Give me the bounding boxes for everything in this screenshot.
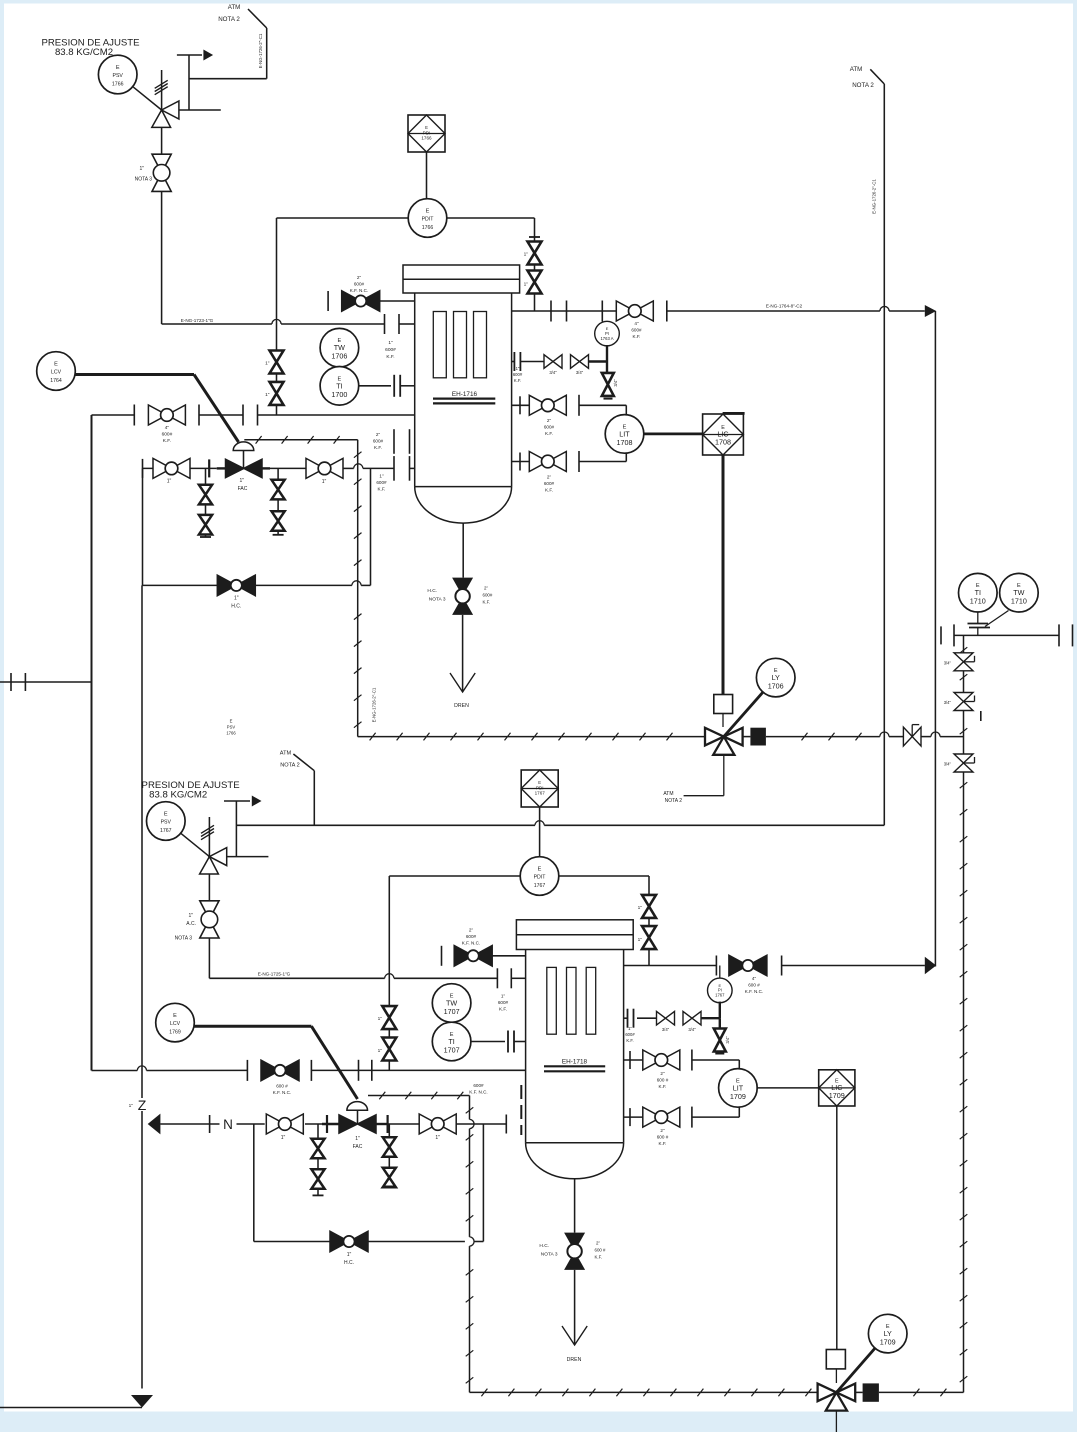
flange: [715, 956, 717, 976]
relief valve PSV-1766: [152, 101, 179, 127]
svg-text:DREN: DREN: [567, 1357, 582, 1363]
instrument LIT-1708: [605, 415, 644, 454]
flange: [510, 968, 512, 988]
wire HC bypass b: [255, 584, 352, 586]
wire psv stem: [161, 70, 163, 110]
jacket bottom c: [879, 1391, 964, 1393]
svg-text:E-NG-1764-8"-C2: E-NG-1764-8"-C2: [766, 304, 803, 309]
wire spool: [199, 414, 243, 416]
instrument LCV-1769: [156, 1003, 195, 1042]
wire N2 riser upper: [141, 585, 143, 1098]
svg-text:K.F.: K.F.: [386, 354, 394, 360]
wire vent tee: [177, 54, 202, 56]
svg-text:1": 1": [322, 479, 327, 485]
arrow to bottom: [131, 1395, 153, 1408]
svg-text:N: N: [223, 1117, 233, 1132]
bleed valve: [383, 1168, 396, 1188]
wire psv outlet: [179, 109, 221, 111]
svg-text:NOTA 2: NOTA 2: [665, 798, 683, 804]
wire drain b: [462, 615, 464, 692]
flange cap: [327, 291, 329, 311]
valve 2in 600KF NC: [454, 946, 492, 967]
wire 3way drain: [723, 755, 725, 796]
wire 3way drain 2: [835, 1411, 837, 1432]
svg-text:2": 2": [469, 928, 474, 933]
control valve FAC-2: [339, 1115, 376, 1133]
wire TI-1707 tap: [471, 1041, 505, 1043]
vessel EH-1716: [403, 265, 520, 523]
svg-text:1": 1": [240, 478, 245, 484]
svg-text:EH-1718: EH-1718: [562, 1059, 588, 1066]
signal stub top: [723, 412, 745, 415]
drain arrow 2: [562, 1326, 587, 1345]
svg-text:ATM: ATM: [228, 4, 241, 11]
instrument TW-1710: [1000, 573, 1039, 612]
flange: [246, 1060, 248, 1081]
svg-text:1": 1": [139, 166, 144, 172]
tap valve 1in: [382, 1006, 396, 1029]
svg-text:1": 1": [379, 474, 384, 479]
svg-text:600#: 600#: [162, 432, 173, 438]
instrument TI-1707: [432, 1022, 471, 1061]
jacket drain header b: [743, 736, 751, 738]
svg-text:600 #: 600 #: [595, 1248, 607, 1253]
svg-text:1": 1": [501, 994, 506, 999]
wire tap: [520, 361, 544, 363]
tap valve 1in: [528, 271, 542, 294]
svg-text:K.F.: K.F.: [163, 438, 171, 444]
tap valve 1in: [270, 351, 284, 374]
instrument PI-1767: [708, 978, 733, 1003]
flange: [550, 301, 552, 322]
flange: [629, 1051, 631, 1069]
svg-text:2": 2": [547, 475, 552, 480]
flange: [505, 1115, 507, 1134]
wire E-NG-1764 line: [667, 310, 880, 312]
svg-text:E: E: [54, 362, 58, 368]
stub cap: [273, 534, 284, 536]
instrument PDI-1767: [521, 770, 558, 807]
svg-text:600#: 600#: [373, 439, 384, 444]
wire lower tap line a: [92, 1070, 138, 1072]
jacket drain header f: [940, 736, 963, 738]
flange: [242, 405, 244, 426]
svg-text:3/4": 3/4": [944, 700, 952, 705]
flange: [666, 301, 668, 322]
svg-text:E: E: [230, 719, 233, 724]
wire actuator stem: [243, 451, 245, 469]
gate valve 4in 600 KF: [148, 405, 185, 425]
svg-text:4": 4": [165, 425, 170, 431]
svg-text:PSV: PSV: [161, 820, 172, 826]
wire mid ATM stub: [313, 771, 315, 826]
wire to LIT 2: [692, 1059, 739, 1061]
wire ATM header a: [236, 824, 535, 826]
wire nozzle: [511, 977, 525, 979]
svg-text:E: E: [116, 65, 120, 71]
svg-text:A.C.: A.C.: [186, 921, 196, 927]
instrument PI-1763A: [595, 321, 620, 346]
svg-text:1": 1": [524, 282, 529, 288]
three-way valve 2: [818, 1384, 856, 1411]
instrument LY-1709: [868, 1314, 907, 1353]
wire vent riser 2: [235, 801, 237, 857]
svg-text:1": 1": [129, 1103, 134, 1109]
fail position square: [750, 728, 766, 746]
hop over PDIT leg: [385, 974, 394, 979]
valve 1in HC: [217, 575, 255, 596]
svg-text:2": 2": [660, 1071, 665, 1076]
wire PDIT2 left leg: [388, 876, 390, 1070]
needle valve 3/4 d: [657, 1011, 675, 1025]
jacket left vertical 2c: [469, 1246, 471, 1392]
svg-text:1700: 1700: [331, 390, 347, 399]
svg-text:1": 1": [524, 252, 529, 258]
wire vent riser: [188, 55, 190, 110]
svg-text:600#: 600#: [544, 481, 555, 486]
wire interconnect drop: [934, 311, 936, 967]
svg-text:FAC: FAC: [238, 486, 248, 492]
wire bleed stub 3: [317, 1124, 319, 1195]
stub cap: [384, 1185, 395, 1187]
wire bypass riser right: [370, 468, 372, 585]
wire HC bypass 2c: [474, 1241, 483, 1243]
wire thick: [589, 360, 608, 362]
wire LIT top leg: [625, 405, 627, 415]
svg-text:K.F.: K.F.: [545, 431, 553, 436]
flange: [629, 1108, 631, 1126]
svg-text:1710: 1710: [1011, 597, 1027, 606]
svg-text:1": 1": [516, 366, 520, 371]
wire actuator to valve: [722, 714, 724, 728]
signal LCV2 thick: [194, 1025, 311, 1028]
wire TI stem b: [977, 628, 979, 636]
wire PDIT right leg: [534, 218, 536, 311]
svg-text:3/4": 3/4": [944, 660, 952, 665]
wire PDIT right tap: [448, 217, 535, 219]
blind flange pair: [393, 456, 395, 481]
wire actuator to valve 2: [835, 1369, 837, 1383]
svg-text:1": 1": [638, 905, 643, 911]
wire PDIT2 right tap: [559, 875, 649, 877]
svg-text:NOTA 2: NOTA 2: [280, 763, 299, 769]
svg-text:3/4": 3/4": [944, 762, 952, 767]
flow arrow into riser: [148, 1114, 161, 1135]
wire tap stub 2: [624, 1017, 628, 1019]
jacket line left vertical: [357, 440, 359, 737]
flange: [519, 396, 521, 414]
signal PSV-1766 to valve: [133, 87, 161, 110]
flange: [578, 395, 580, 416]
needle valve 3/4 vert: [602, 373, 614, 396]
svg-text:K.F.: K.F.: [499, 1007, 507, 1012]
needle valve 3/4: [571, 355, 589, 369]
jacket right vertical: [963, 635, 965, 1392]
svg-text:600#: 600#: [354, 282, 365, 287]
wire mid ATM slant: [293, 754, 314, 771]
svg-text:E-NG-1726-2"-C1: E-NG-1726-2"-C1: [258, 33, 263, 68]
svg-text:K.F. N.C.: K.F. N.C.: [745, 989, 763, 994]
wire TI-1700 tap: [359, 385, 391, 387]
wire PDIT left tap: [277, 217, 408, 219]
svg-text:600#: 600#: [473, 1083, 484, 1088]
svg-text:E-NG-1725-1"G: E-NG-1725-1"G: [258, 972, 291, 977]
jacket drain header c: [766, 736, 880, 738]
svg-text:K.F.: K.F.: [545, 488, 553, 493]
control valve FAC-1: [226, 459, 263, 477]
wire actuator stem 2: [357, 1110, 359, 1124]
svg-text:1710: 1710: [970, 597, 986, 606]
wire E-NG-1723 line: [162, 323, 272, 325]
wire drain 2b: [574, 1270, 576, 1345]
wire ATM slant: [248, 9, 267, 28]
wire TI nozzle: [400, 385, 415, 387]
svg-text:NOTA 3: NOTA 3: [175, 936, 193, 942]
three-way valve: [705, 728, 743, 755]
wire level nozzle 2 top: [624, 1059, 644, 1061]
psv2 spring: [201, 825, 214, 839]
wire N2 riser lower: [141, 1111, 143, 1389]
gate valve 2in d: [643, 1107, 680, 1127]
svg-text:K.F. N.C.: K.F. N.C.: [273, 1090, 291, 1095]
blind flange pair: [393, 429, 395, 454]
wire drain: [462, 523, 464, 578]
svg-text:1764: 1764: [50, 378, 62, 384]
svg-text:1706: 1706: [331, 352, 347, 361]
wire outlet line: [512, 310, 617, 312]
svg-text:1707: 1707: [444, 1046, 460, 1055]
instrument PSV-1767: [147, 802, 186, 841]
svg-text:1": 1": [281, 1135, 286, 1141]
svg-text:E: E: [538, 780, 541, 785]
svg-text:E-NG-1726-2"-C1: E-NG-1726-2"-C1: [872, 179, 877, 214]
wire level nozzle bottom: [512, 461, 530, 463]
flange: [358, 1060, 360, 1081]
wire PDI stem: [539, 807, 541, 857]
svg-text:600 #: 600 #: [276, 1084, 288, 1089]
instrument TI-1700: [320, 367, 359, 406]
wire level nozzle 2 bottom: [624, 1116, 644, 1118]
valve 1in HC 2: [330, 1231, 368, 1252]
signal PI thick stem: [606, 345, 608, 362]
gate valve 2in: [529, 395, 566, 415]
flange: [691, 1050, 693, 1071]
valve 3/4 a: [954, 653, 975, 671]
svg-text:K.F.: K.F.: [374, 445, 382, 450]
signal LY diagonal: [724, 692, 763, 737]
relief valve PSV-1767: [200, 848, 227, 874]
flange: [953, 624, 955, 646]
valve 3/4 b: [954, 693, 975, 711]
wire 1in FAC line a: [143, 467, 217, 469]
hop over interconnect: [931, 732, 940, 737]
jacket drain header a: [358, 736, 705, 738]
tag underline b: [433, 402, 495, 404]
wire HC bypass 2: [254, 1241, 331, 1243]
flange: [1058, 624, 1060, 646]
wire E-NG-1723 line b: [281, 323, 384, 325]
wire 4in steam line: [92, 414, 135, 416]
svg-text:K.F.: K.F.: [633, 334, 641, 339]
flange pair: [394, 375, 400, 397]
wire psv2 inlet: [208, 874, 210, 901]
valve 2in 600 KF NC: [342, 291, 380, 312]
svg-text:E: E: [538, 867, 542, 873]
gate valve 1in b: [306, 458, 343, 478]
svg-text:1": 1": [628, 1026, 632, 1031]
vent arrow: [203, 50, 213, 61]
tap valve 1in d: [642, 926, 656, 949]
svg-text:Z: Z: [138, 1097, 147, 1113]
svg-text:83.8 KG/CM2: 83.8 KG/CM2: [149, 790, 207, 801]
svg-text:K.F.: K.F.: [483, 600, 491, 605]
wire line e: [456, 1123, 506, 1125]
svg-text:2": 2": [596, 1241, 600, 1246]
svg-text:1": 1": [378, 1016, 383, 1022]
wire to vessel: [380, 300, 415, 302]
stub bar: [529, 236, 540, 238]
wire line d: [388, 1123, 420, 1125]
wire TW slant: [985, 611, 1009, 627]
jacket left vertical 2b: [469, 1129, 471, 1237]
wire thick stub: [322, 1123, 339, 1125]
svg-text:1708: 1708: [617, 438, 633, 447]
valve HC NOTA3 drain: [452, 578, 473, 615]
line hop over jacket: [352, 581, 361, 586]
wire outlet 2b: [782, 965, 925, 967]
svg-text:1": 1": [167, 479, 172, 485]
svg-text:1769: 1769: [169, 1030, 181, 1036]
valve 600KF NC lower: [261, 1060, 299, 1081]
bleed valve: [272, 480, 285, 500]
svg-text:PSV: PSV: [113, 73, 124, 79]
wire to LIT 2b: [692, 1116, 739, 1118]
svg-text:600#: 600#: [544, 425, 555, 430]
signal LIT-LIC: [644, 432, 703, 435]
svg-text:600#: 600#: [483, 593, 493, 598]
svg-text:1766: 1766: [422, 225, 434, 231]
svg-text:2": 2": [357, 275, 362, 280]
tap valve 1in: [270, 382, 284, 405]
bleed valve: [383, 1137, 396, 1157]
svg-text:4": 4": [752, 976, 757, 981]
gate valve 1in b: [419, 1114, 456, 1134]
wire thick stub: [217, 467, 226, 469]
svg-text:1709: 1709: [829, 1091, 845, 1100]
flange: [384, 314, 386, 334]
flow arrow: [925, 305, 936, 317]
svg-text:2": 2": [660, 1128, 665, 1133]
flange: [371, 1060, 373, 1081]
svg-text:K.F. N.C.: K.F. N.C.: [462, 941, 480, 946]
svg-text:LCV: LCV: [51, 370, 62, 376]
svg-text:NOTA 3: NOTA 3: [135, 177, 153, 183]
flange pair: [508, 1031, 514, 1053]
svg-text:1767: 1767: [715, 993, 725, 998]
svg-text:E-NG-1723-1"G: E-NG-1723-1"G: [181, 318, 214, 323]
svg-text:NOTA 2: NOTA 2: [218, 16, 240, 23]
svg-text:2": 2": [547, 418, 552, 423]
actuator square LY-1706: [714, 695, 733, 714]
fail position square 2: [863, 1383, 879, 1401]
tap valve 1in c: [642, 895, 656, 918]
jacket bottom a: [470, 1391, 818, 1393]
wire ATM slant right: [870, 69, 884, 84]
svg-text:4": 4": [634, 321, 639, 326]
wire N2 line b: [237, 1123, 265, 1125]
wire bottom left exit: [0, 1407, 142, 1409]
valve 4in 600KF NC outlet: [729, 955, 767, 976]
tap valve 1in: [528, 242, 542, 265]
svg-text:1": 1": [435, 1135, 440, 1141]
wire drain 2: [574, 1179, 576, 1233]
svg-text:600#: 600#: [466, 934, 477, 939]
instrument TW-1707: [432, 984, 471, 1023]
signal PSV-1767 to valve: [181, 833, 210, 856]
wire to corner: [889, 310, 925, 312]
wire TI stem: [977, 612, 979, 623]
flange pair: [514, 352, 520, 371]
actuator dome FAC-1: [233, 442, 254, 451]
svg-text:1": 1": [638, 937, 643, 943]
wire PDIT2 right leg: [648, 876, 650, 966]
wire line c: [270, 467, 306, 469]
gate valve 2in c: [643, 1050, 680, 1070]
wire ATM riser: [266, 28, 268, 79]
svg-text:1": 1": [388, 340, 393, 346]
signal LCV diagonal: [194, 375, 239, 443]
wire TI nozzle 2: [514, 1041, 526, 1043]
svg-text:1709: 1709: [730, 1092, 746, 1101]
wire to vessel inlet: [258, 414, 415, 416]
thermowell bars: [968, 624, 991, 628]
line hop: [272, 319, 281, 324]
svg-text:E-NG-1726-2"-C1: E-NG-1726-2"-C1: [372, 687, 377, 722]
gate valve 1in AC NOTA 3: [200, 901, 219, 938]
psv spring: [155, 80, 168, 94]
signal PI thick stem 2: [719, 1002, 721, 1019]
flange: [398, 314, 400, 334]
jacket valve: [903, 725, 921, 746]
svg-text:1": 1": [355, 1136, 360, 1142]
instrument LCV-1764: [37, 352, 76, 391]
wire psv inlet riser: [161, 191, 163, 324]
jacket drain header e: [921, 736, 931, 738]
wire line c: [305, 1123, 322, 1125]
gate valve 1in: [266, 1114, 303, 1134]
svg-text:3/4": 3/4": [549, 370, 557, 375]
svg-text:EH-1716: EH-1716: [452, 391, 478, 398]
gate valve 1in NOTA 3: [152, 154, 171, 191]
svg-text:1767: 1767: [535, 791, 546, 796]
svg-text:NOTA 3: NOTA 3: [541, 1252, 558, 1258]
signal LIC to LY valve: [722, 455, 725, 695]
svg-text:NOTA 2: NOTA 2: [852, 82, 874, 89]
flange: [940, 626, 942, 644]
drain arrow: [450, 673, 475, 692]
svg-text:PDI: PDI: [536, 785, 544, 790]
svg-text:H.C.: H.C.: [344, 1260, 354, 1266]
wire HC bypass: [143, 584, 218, 586]
flange: [10, 673, 12, 691]
wire TI-1710 line: [954, 634, 1059, 636]
svg-text:DREN: DREN: [454, 703, 469, 709]
wire E-NG-1725: [209, 977, 384, 979]
wire to LIT: [579, 404, 626, 406]
svg-text:600#: 600#: [498, 1000, 509, 1005]
flange edge: [1072, 624, 1074, 646]
valve 3/4 c: [954, 754, 975, 772]
